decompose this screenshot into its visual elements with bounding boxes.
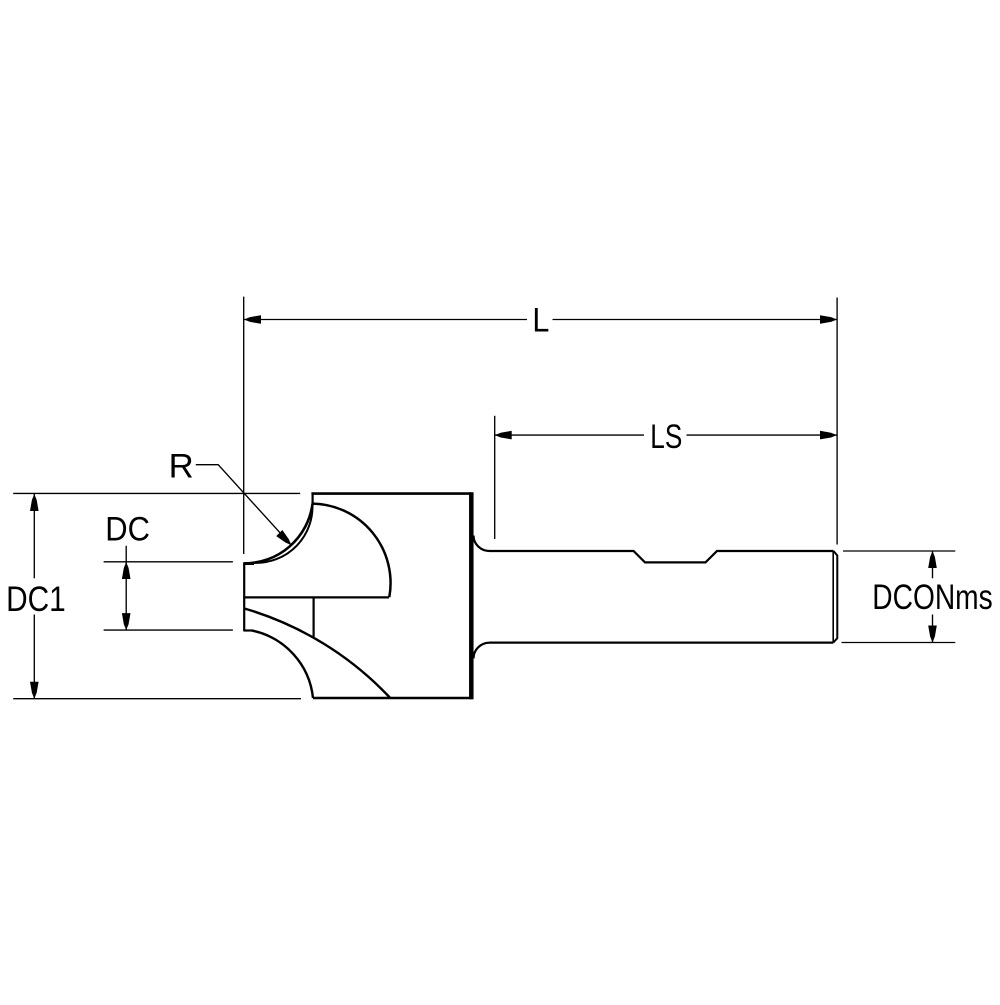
dimension DCONms line top segment xyxy=(932,551,934,578)
dimension DCONms extension line top xyxy=(843,550,955,552)
dimension LS line left segment xyxy=(495,434,644,436)
dimension L line left segment xyxy=(244,319,527,321)
bottom corner radius arc xyxy=(252,631,313,698)
dimension DC1 line bottom segment xyxy=(33,615,35,699)
shank end chamfer top xyxy=(834,551,838,556)
dimension DC1 extension line bottom xyxy=(13,698,301,700)
dimension DC line shaft xyxy=(125,562,127,630)
outer corner radius arc (cutting edge R) xyxy=(244,504,312,563)
dimension L arrow right xyxy=(820,315,837,324)
radius R leader line xyxy=(196,465,291,545)
dimension DC extension line bottom xyxy=(104,629,233,631)
dimension DC arrow bottom xyxy=(122,613,131,630)
top flute arc xyxy=(313,504,391,598)
tooth gash vertical xyxy=(313,597,315,638)
cutter head top edge xyxy=(311,492,471,495)
dimension DCONms extension line bottom xyxy=(842,642,956,644)
dimension DC1 arrow top xyxy=(30,494,39,511)
dimension DC1 arrow bottom xyxy=(30,682,39,699)
dimension DC leader stub xyxy=(125,546,127,562)
dimension DC1 line top segment xyxy=(33,494,35,578)
svg-text:DC: DC xyxy=(105,511,150,549)
dimension DCONms arrow bottom xyxy=(928,626,937,643)
svg-text:DC1: DC1 xyxy=(6,580,66,619)
pilot front face xyxy=(243,562,245,631)
pilot top edge xyxy=(244,562,254,565)
cutter head left top vertical xyxy=(312,493,314,505)
shank bottom edge xyxy=(490,641,834,643)
dimension DC arrow top xyxy=(122,562,131,579)
radius R leader arrow xyxy=(276,530,294,548)
dimension L line right segment xyxy=(553,319,838,321)
dimension L extension line left xyxy=(243,297,245,554)
dimension L extension line right xyxy=(836,298,838,545)
cutter head right edge (thick) xyxy=(469,492,474,699)
svg-text:L: L xyxy=(532,302,549,340)
pilot bottom edge xyxy=(244,629,253,631)
neck fillet top xyxy=(474,536,490,552)
shank chamfer witness line xyxy=(832,552,834,643)
dimension DCONms line bottom segment xyxy=(932,615,934,643)
dimension DCONms arrow top xyxy=(928,551,937,568)
neck fillet bottom xyxy=(474,643,490,659)
cutter head bottom edge xyxy=(313,697,474,700)
shank end face xyxy=(836,555,838,639)
dimension LS extension line xyxy=(494,416,496,539)
svg-text:R: R xyxy=(169,448,194,486)
heel relief arc xyxy=(254,502,312,563)
dimension LS arrow right xyxy=(820,431,837,440)
shank end chamfer bottom xyxy=(833,638,837,642)
svg-text:DCONms: DCONms xyxy=(872,578,992,617)
dimension LS arrow left xyxy=(495,431,512,440)
dimension DC1 extension line top xyxy=(13,492,300,494)
dimension L arrow left xyxy=(244,315,261,324)
lower flute arc xyxy=(245,609,390,698)
dimension LS line right segment xyxy=(687,434,838,436)
radial face mid line xyxy=(244,596,389,598)
dimension DC extension line top xyxy=(104,561,233,563)
svg-text:LS: LS xyxy=(650,418,682,456)
shank top edge with notch xyxy=(490,551,834,562)
